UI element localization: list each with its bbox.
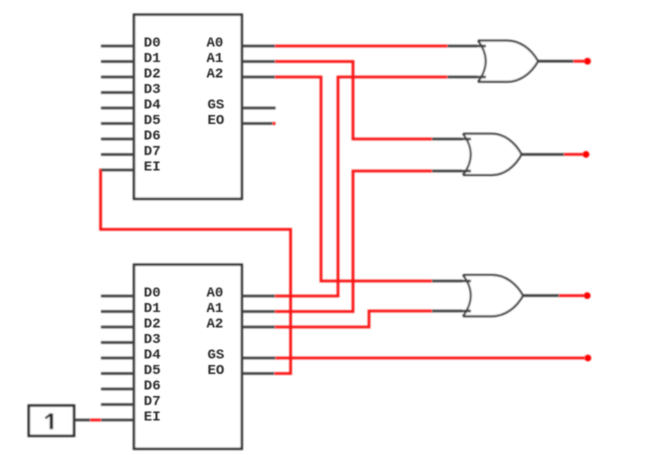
wire: U1 A2 to G3 input 1 [275,77,432,281]
svg-text:A0: A0 [207,36,224,52]
wire: U2 A0 to G1 input 2 [275,77,448,296]
wire: G2 output to terminal [564,153,584,156]
U1 input pins D0-D7 stubs [101,46,134,155]
wire: U1 A1 to G2 input 1 [275,62,432,140]
U2 pin labels left D0-D7,EI [144,286,161,426]
U1 output pin stubs A0,A1,A2,GS,EO [242,46,276,124]
U2 pin labels right A0,A1,A2,GS,EO [207,286,225,380]
or-gate G2 input pin stubs [432,139,471,171]
U2 EI pin stub [101,419,134,422]
svg-text:A0: A0 [207,286,224,302]
terminal dot G1 [584,58,591,65]
wire: U2 GS to output terminal [276,357,586,360]
svg-text:D0: D0 [144,36,161,52]
or-gate G1 output stub [538,60,573,63]
svg-text:A1: A1 [207,51,224,67]
svg-text:GS: GS [208,348,225,364]
svg-text:EI: EI [144,160,161,176]
or-gate G2 body [463,134,522,175]
svg-text:A1: A1 [207,301,224,317]
U2 input pins D0-D7 stubs [101,296,134,405]
svg-text:D2: D2 [144,317,161,333]
constant source output stub [74,419,90,422]
wire: G3 output to terminal [559,294,585,297]
U1 EO red wire stub [273,122,276,125]
constant "1" label [45,413,51,429]
svg-text:D3: D3 [144,332,161,348]
svg-text:D2: D2 [144,67,161,83]
svg-text:D5: D5 [144,113,161,129]
svg-text:D4: D4 [144,98,161,114]
svg-text:EI: EI [144,410,161,426]
wire: U2 A1 to G2 input 2 [275,171,432,312]
or-gate G3 body [463,275,523,316]
svg-text:A2: A2 [207,67,224,83]
svg-text:A2: A2 [207,317,224,333]
wire: constant 1 to U2 EI [90,419,101,422]
svg-text:D1: D1 [144,301,161,317]
svg-text:D6: D6 [144,129,161,145]
constant source "1" box [29,406,74,436]
wire: U1 A0 to G1 input 1 [275,45,448,48]
svg-text:D1: D1 [144,51,161,67]
svg-text:D7: D7 [144,144,161,160]
svg-text:EO: EO [208,113,225,129]
U1 pin labels left D0-D7,EI [144,36,161,176]
svg-text:D5: D5 [144,363,161,379]
terminal dot GS [585,355,592,362]
svg-text:D7: D7 [144,394,161,410]
encoder U1 (top 74148) body [134,15,242,199]
terminal dot G3 [584,292,591,299]
or-gate G3 input pin stubs [432,281,471,311]
U1 EI pin stub [101,169,134,172]
wire: U2 EO to U1 EI [101,170,291,374]
terminal dot G2 [583,151,590,158]
svg-text:D6: D6 [144,379,161,395]
or-gate G2 output stub [522,153,565,156]
U2 output pin stubs A0,A1,A2,GS,EO [242,296,276,374]
wire: U2 A2 to G3 input 2 [275,311,432,327]
wire: G1 output to terminal [573,60,585,63]
svg-text:D3: D3 [144,82,161,98]
encoder U2 (bottom 74148) body [134,265,242,449]
svg-text:GS: GS [208,98,225,114]
U1 pin labels right A0,A1,A2,GS,EO [207,36,225,130]
or-gate G1 body [478,41,538,82]
svg-text:D0: D0 [144,286,161,302]
svg-text:D4: D4 [144,348,161,364]
or-gate G1 input pin stubs [448,46,487,77]
or-gate G3 output stub [523,294,559,297]
svg-text:EO: EO [208,363,225,379]
